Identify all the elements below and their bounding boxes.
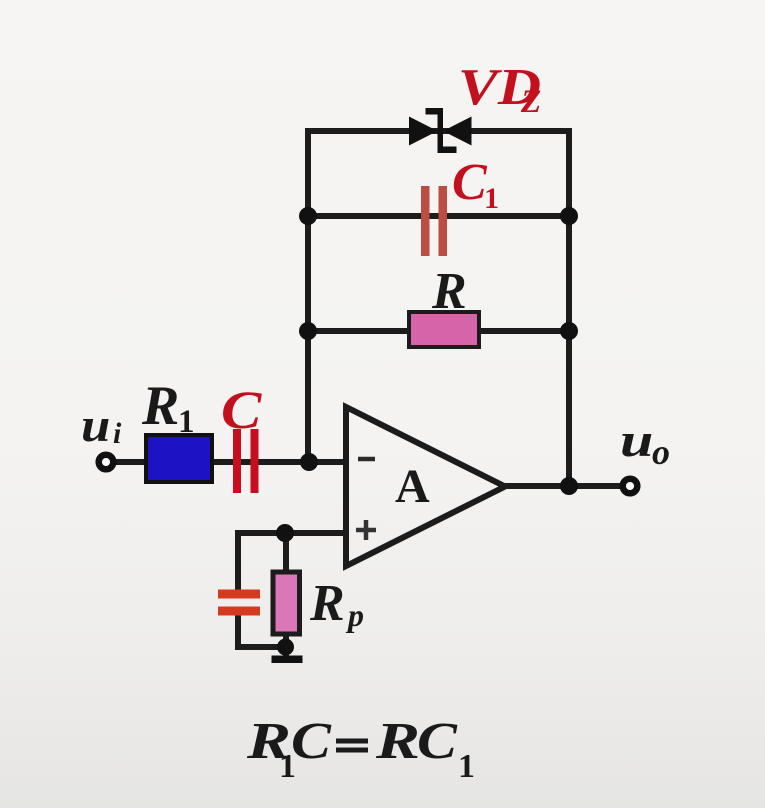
svg-text:i: i [113,417,122,450]
svg-text:o: o [652,432,670,472]
svg-text:C: C [221,381,262,440]
svg-text:p: p [345,597,364,633]
resistor Rp [273,572,300,634]
capacitor Cp (horizontal plates) [218,590,260,616]
terminal ui [99,455,114,470]
svg-text:R: R [431,263,467,320]
wire R branch [308,328,569,334]
capacitor C1 [421,186,447,256]
wire input [115,459,346,465]
op-amp A [346,407,505,566]
wire Cp branch upper segment [235,530,241,590]
resistor R1 [146,435,212,482]
wire Rp bottom lead [283,634,289,656]
svg-text:R: R [309,575,345,632]
node junction right C1 [560,207,578,225]
resistor R [409,312,479,347]
svg-text:C: C [417,713,458,771]
node junction output [560,477,578,495]
svg-text:1: 1 [458,748,475,785]
svg-text:u: u [620,414,653,467]
node junction right R [560,322,578,340]
wire Cp branch lower segment [235,615,241,647]
svg-text:1: 1 [484,182,499,215]
node junction inverting input [300,453,318,471]
svg-text:A: A [395,460,430,513]
wire C1 branch [308,213,569,219]
terminal uo [623,479,638,494]
svg-text:1: 1 [178,404,195,440]
svg-text:R: R [375,712,420,770]
svg-text:Z: Z [520,84,541,120]
zener diode pair VDz [409,108,472,153]
wire bottom to ground node [235,644,286,650]
node junction left R [299,322,317,340]
ground [272,656,303,664]
op-amp plus sign [356,520,376,540]
node junction noninverting [276,524,294,542]
node junction ground [277,639,294,656]
wire feedback loop: left vertical, top branch, right vertical [308,131,569,486]
op-amp minus sign [358,457,375,462]
capacitor C [233,429,259,493]
wire Rp top lead [283,533,289,572]
wire output [505,483,622,489]
svg-text:u: u [81,398,110,451]
svg-text:R: R [141,375,179,437]
svg-text:C: C [452,154,488,211]
node junction left C1 [299,207,317,225]
svg-text:C: C [291,713,332,771]
wire noninverting input [238,530,346,536]
